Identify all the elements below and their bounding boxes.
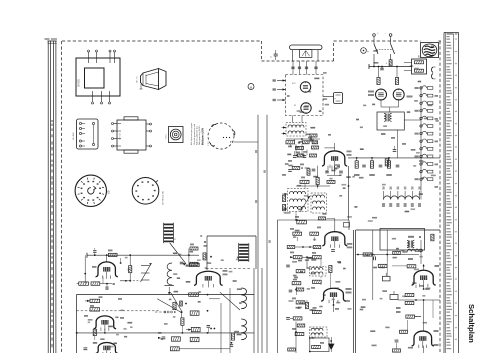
resistor R78 xyxy=(313,246,321,249)
capacitor C51 xyxy=(207,324,211,326)
capacitor C68 xyxy=(289,289,293,291)
micro labels FM box xyxy=(88,319,93,321)
wire a3 xyxy=(432,300,434,318)
wire tubes down xyxy=(380,100,382,107)
tuner top pins xyxy=(292,61,294,75)
resistor R63 xyxy=(296,146,304,149)
resistor R84 xyxy=(296,270,305,273)
small res mid xyxy=(180,301,183,306)
tube V1 ECC85 triode a xyxy=(300,82,310,92)
resistor R105 xyxy=(405,301,414,304)
wire x296 mid xyxy=(295,322,297,345)
wire c1 xyxy=(301,144,303,148)
resistor R41 xyxy=(129,266,132,273)
junction y312 xyxy=(181,311,183,313)
resistor R47 xyxy=(93,329,96,335)
chassis dashed border right vertical xyxy=(439,41,441,353)
tube V2 wires xyxy=(106,255,108,262)
output transformer small xyxy=(377,112,404,130)
ferrite antenna A1 xyxy=(290,45,323,50)
dial disc S2 xyxy=(132,178,159,205)
meander coil L6 xyxy=(167,263,172,285)
antenna terminal J1 xyxy=(373,34,376,37)
legend strip row text xyxy=(446,36,449,37)
node K xyxy=(210,256,212,258)
wire antenna leads to coils xyxy=(292,116,294,123)
resistor R88 xyxy=(296,301,305,304)
capacitor C61 xyxy=(303,155,307,157)
tuner left pins xyxy=(277,80,286,82)
antenna terminal J2 xyxy=(389,34,392,37)
chassis dashed border top far-right xyxy=(439,40,442,42)
resistor R33 xyxy=(203,253,206,260)
diode D1 xyxy=(329,344,334,349)
potentiometer P1 xyxy=(169,127,184,143)
resistor R75 xyxy=(310,154,317,157)
bus wire x230 xyxy=(229,288,231,353)
capacitor C74 xyxy=(396,164,400,166)
transformer T1 GH505 xyxy=(76,58,120,96)
resistor R53 xyxy=(190,311,199,315)
resistor R102 xyxy=(431,234,434,241)
switch S3a xyxy=(374,44,378,54)
capacitor C72 xyxy=(362,164,366,166)
resistor R40 xyxy=(108,253,117,256)
bus tick marks xyxy=(255,150,257,153)
resistor R91 xyxy=(312,310,321,313)
wire cc1 xyxy=(295,144,297,155)
resistor R46 xyxy=(90,308,100,311)
wire can B xyxy=(404,61,409,63)
resistor R73 xyxy=(370,161,373,168)
spine micro text xyxy=(51,120,53,122)
resistor R55 xyxy=(191,327,200,331)
capacitor C60 xyxy=(293,155,297,157)
resistor R66 xyxy=(283,195,286,201)
capacitor C80 xyxy=(286,264,290,266)
labels FM box xyxy=(118,298,122,300)
diagonal into L10 xyxy=(220,292,240,310)
labels bottom mid xyxy=(290,252,294,254)
svg-text:GH-VB 510-UB: GH-VB 510-UB xyxy=(163,191,165,205)
tube V7 xyxy=(393,89,404,100)
wire audio in xyxy=(356,254,364,256)
tube V8 pin stubs xyxy=(327,166,329,170)
diagonal pair b xyxy=(170,292,182,312)
resistor R86 xyxy=(292,282,301,285)
capacitor C90 xyxy=(380,67,383,69)
resistor R97 xyxy=(307,169,310,175)
wire detector bus xyxy=(348,157,440,159)
tube V6 xyxy=(376,89,387,100)
micro labels tuner xyxy=(323,72,327,74)
svg-text:Schaltplan: Schaltplan xyxy=(467,304,476,343)
FM wire y333 xyxy=(76,332,254,334)
wire c6 xyxy=(297,237,299,241)
capacitor C95 xyxy=(393,149,397,151)
resistor R61 xyxy=(303,141,310,144)
svg-text:gn: gn xyxy=(367,51,369,53)
wire V11 top xyxy=(423,264,425,270)
resistor R81 xyxy=(377,78,380,85)
chassis dashed border top-left xyxy=(62,40,262,42)
spine top tiny text xyxy=(45,38,50,40)
wire V5 grid xyxy=(188,277,196,279)
labels mid right xyxy=(381,133,386,135)
resistor R101 xyxy=(378,264,387,267)
resistor R96 xyxy=(292,167,300,170)
resistor R69 xyxy=(319,217,326,220)
resistor R65 xyxy=(300,180,309,183)
wave trap coil chain xyxy=(384,196,420,200)
resistor R32 xyxy=(190,262,198,265)
wire cc2 xyxy=(301,148,303,155)
bus wire x277 xyxy=(277,220,279,353)
chassis dashed border antenna dip right xyxy=(333,41,335,61)
mains transformer T3 xyxy=(380,229,425,251)
wire J2 branch xyxy=(390,54,392,60)
resistor R106 xyxy=(406,315,415,318)
resistor R76 xyxy=(297,154,304,157)
cap C64 xyxy=(339,170,343,172)
resistor R60 xyxy=(286,141,295,144)
svg-text:K: K xyxy=(201,234,203,238)
IF can Z1 xyxy=(162,223,164,243)
wire c8 xyxy=(296,286,298,295)
coil pair L22 dashed box xyxy=(311,193,327,213)
capacitor C81 xyxy=(286,317,290,319)
wire a4 xyxy=(396,343,398,349)
wire L40 xyxy=(415,251,421,253)
resistor R31 xyxy=(190,247,198,250)
ratio detector box bottom xyxy=(310,338,329,352)
Philips emblem xyxy=(421,43,439,58)
wire x348 detector xyxy=(348,166,350,220)
label 220V xyxy=(408,236,414,238)
coil pair L31 xyxy=(310,327,328,337)
IF coil L11 xyxy=(241,319,246,340)
FM box edges xyxy=(76,295,78,353)
wire audio h2 xyxy=(398,299,440,301)
micro labels bottom mid xyxy=(309,309,312,311)
wire a1 xyxy=(386,262,388,276)
wire x307 v xyxy=(306,257,308,268)
resistor R67 xyxy=(283,204,286,210)
capacitor C41 xyxy=(105,286,107,290)
junction dots bottom xyxy=(207,294,209,296)
resistor R110 xyxy=(312,146,319,149)
wire R70 R71 xyxy=(302,233,311,235)
ladder right marks xyxy=(435,95,439,97)
svg-text:GH 505: GH 505 xyxy=(79,78,81,87)
resistor R92 xyxy=(295,332,304,335)
IF box corner lines xyxy=(207,235,256,237)
switch coupling xyxy=(376,49,393,51)
coil pair L30 xyxy=(310,267,327,277)
micro labels top right xyxy=(372,104,375,106)
tube V9 EABC80 xyxy=(322,232,347,246)
svg-text:↓: ↓ xyxy=(385,32,386,35)
wire R43 right xyxy=(100,283,112,285)
IF coil L10 xyxy=(241,288,246,309)
label 470k group xyxy=(354,174,360,176)
resistor R95 xyxy=(385,159,388,166)
legend strip frame xyxy=(443,33,445,353)
pot P2 xyxy=(390,295,398,300)
wire bottom 349 xyxy=(179,348,230,350)
wire v11 pins xyxy=(415,285,417,288)
wire audio v3 xyxy=(407,320,409,332)
junction dots y328 xyxy=(210,328,212,330)
audio module box top edge xyxy=(356,229,440,231)
wire T3 down xyxy=(420,240,422,246)
wire y298 xyxy=(209,298,220,300)
tube V12 EL95 xyxy=(412,331,434,346)
left cluster y338 xyxy=(162,336,166,338)
wire c2 xyxy=(334,143,336,151)
resistor R51 xyxy=(189,293,199,296)
resistor R57 xyxy=(172,337,181,341)
labels V12 xyxy=(434,330,439,332)
dashed coupling wire xyxy=(126,280,140,282)
tuner unit dashed box xyxy=(286,75,324,116)
tube V8 EF89 xyxy=(322,151,347,166)
resistor R59 xyxy=(232,333,235,340)
wire x333 down xyxy=(333,301,335,312)
resistor R111 xyxy=(310,134,317,137)
chassis dashed border antenna dip left xyxy=(261,41,263,61)
svg-text:Meßwerte ±20%: Meßwerte ±20% xyxy=(202,128,205,145)
wire center y186 xyxy=(296,185,330,187)
pot P3 xyxy=(383,276,391,281)
coil L21 left pins xyxy=(282,193,288,195)
wire Y xyxy=(234,141,259,143)
antenna lead left xyxy=(292,50,294,61)
micro labels detector xyxy=(416,152,420,154)
resistor R43 xyxy=(91,282,100,285)
wire V2 left xyxy=(84,255,86,283)
wire V3 xyxy=(104,328,106,333)
svg-text:GH 711: GH 711 xyxy=(137,75,139,83)
resistor R64 xyxy=(316,178,319,185)
bus wire x221 xyxy=(220,303,222,353)
wire tube V8 down xyxy=(334,166,336,175)
svg-text:C1: C1 xyxy=(271,56,273,58)
resistor R58 xyxy=(170,347,179,351)
chassis dashed border antenna dip bottom xyxy=(262,60,334,62)
svg-text:GH 510: GH 510 xyxy=(120,132,122,140)
capacitor C42 xyxy=(84,347,88,349)
diagonal pair a xyxy=(157,299,181,313)
resistor R89 xyxy=(293,317,302,320)
wire c7 xyxy=(320,282,322,285)
res R64b xyxy=(327,180,335,183)
wire a2 xyxy=(407,320,409,330)
junction below K xyxy=(204,241,206,243)
band switch contact ladder xyxy=(420,86,422,186)
svg-text:85: 85 xyxy=(294,105,296,107)
wire ladder bottom xyxy=(420,186,422,200)
loudspeaker LS1 xyxy=(159,69,167,90)
labels V10 xyxy=(346,288,352,290)
wires bottom mid xyxy=(330,337,332,344)
antenna lead right xyxy=(317,50,319,61)
resistor R79 xyxy=(306,302,309,308)
detector bumps xyxy=(432,67,433,72)
tube V5 ECH81 xyxy=(194,271,223,285)
resistor R45 xyxy=(90,299,100,302)
legend header marks xyxy=(447,33,454,34)
resistor R94 xyxy=(288,348,296,351)
wire c5 xyxy=(327,217,335,219)
connector module GH642 xyxy=(77,119,99,149)
resistor R85 xyxy=(312,280,321,283)
capacitor C40 xyxy=(93,250,96,252)
wire y175 h xyxy=(327,175,341,177)
dashed line y268 xyxy=(206,268,252,270)
capacitor C100 xyxy=(373,257,375,261)
cap right of V2 xyxy=(120,258,122,262)
labels V11 xyxy=(435,265,440,267)
wire y281 stub xyxy=(120,280,130,282)
resistor R80 xyxy=(293,256,302,259)
bus wire x262 xyxy=(261,268,263,353)
cap C63 xyxy=(325,170,329,172)
electrolytic can C100 (dashed outline) xyxy=(208,123,234,149)
circled label B2 xyxy=(248,84,254,90)
cap C52 xyxy=(230,344,233,346)
svg-text:Netzspannung 220V~: Netzspannung 220V~ xyxy=(198,124,201,145)
wire R42 left xyxy=(77,283,79,285)
labels center col xyxy=(288,146,292,148)
dial disc S1 xyxy=(75,175,106,206)
wire y175 xyxy=(327,175,341,177)
link R31 R32 xyxy=(188,249,190,264)
wire x321 v xyxy=(320,259,322,267)
wire cc3 xyxy=(334,166,336,171)
micro labels IF bottom xyxy=(205,267,208,269)
resistor R68 xyxy=(297,221,307,224)
micro labels center column xyxy=(328,134,331,136)
resistor R56 xyxy=(190,337,199,341)
wire y139 xyxy=(286,138,320,140)
wire links 139-142 xyxy=(294,139,296,141)
bus wire x258 xyxy=(257,115,259,353)
resistor R100 xyxy=(363,253,372,256)
resistor R77 xyxy=(287,246,295,249)
ratio detector transformer B xyxy=(412,59,427,74)
IF filter F1 xyxy=(334,93,343,104)
micro labels audio xyxy=(393,257,397,259)
coil pair L20 dashed box xyxy=(286,123,306,137)
svg-text:GH 642: GH 642 xyxy=(73,132,75,140)
resistor R103 xyxy=(407,265,416,268)
tube V1 ECC85 triode b xyxy=(301,103,311,113)
diagonal wire Z1 to K cluster xyxy=(170,243,186,264)
tuner output wire xyxy=(323,96,334,98)
capacitor C67 xyxy=(312,168,316,170)
svg-text:B: B xyxy=(250,85,252,89)
wire c4 xyxy=(304,184,306,189)
wire c3 xyxy=(295,212,297,221)
tube V2 EC92 xyxy=(96,262,118,277)
resistor R82 xyxy=(395,78,398,85)
wire a5 xyxy=(359,230,361,240)
small box right of V9 xyxy=(344,223,350,228)
trimmer circles row xyxy=(164,311,166,313)
tube V11 EABC80 xyxy=(412,270,436,285)
tube V4 xyxy=(96,342,118,353)
wire y255 end bar xyxy=(86,253,88,258)
wire audio v2 xyxy=(423,300,425,331)
lamp symbol xyxy=(361,48,367,54)
capacitor C66 xyxy=(288,169,292,171)
chassis dashed border left vertical xyxy=(61,41,63,353)
vert resistor R87 xyxy=(329,266,332,273)
resistor R42 xyxy=(79,282,89,285)
resistor R50 xyxy=(189,263,199,266)
tuning arrow L21 xyxy=(300,196,310,212)
wire audio h1 xyxy=(363,254,419,256)
capacitor C101 xyxy=(395,339,399,341)
wire terminal to bus xyxy=(373,54,375,67)
resistor R108 xyxy=(393,349,401,352)
capacitor C65 xyxy=(331,249,335,251)
resistor R74 xyxy=(387,161,390,168)
resistor R72 xyxy=(355,161,358,168)
resistor R62 xyxy=(312,141,318,144)
wire box corner xyxy=(348,220,350,230)
wire y255 long xyxy=(87,254,199,256)
svg-text:Alle Spannungen gegen: Alle Spannungen gegen xyxy=(190,122,193,145)
svg-text:Rohrenvoltmeter bei: Rohrenvoltmeter bei xyxy=(196,126,199,145)
tube V10 xyxy=(321,288,346,301)
driver transformer T2 GH510 xyxy=(117,120,146,150)
coil L20 left pins xyxy=(282,127,287,129)
bus top connect xyxy=(278,219,350,221)
resistor R99 xyxy=(297,324,305,327)
switch S3b xyxy=(391,44,395,54)
resistor R83 xyxy=(312,256,321,259)
wire V8 in xyxy=(308,147,325,149)
resistor R93 xyxy=(312,345,321,348)
chassis dashed border top-right xyxy=(334,40,421,42)
svg-text:ECC: ECC xyxy=(292,83,297,85)
svg-text:GB: GB xyxy=(108,190,111,194)
resistor R54 xyxy=(181,318,184,325)
FM dashed internal xyxy=(77,310,161,312)
capacitor C73 xyxy=(379,164,383,166)
resistor R70 xyxy=(293,232,302,235)
audio module box left edge xyxy=(353,230,355,353)
resistor R98 xyxy=(296,288,304,291)
tapped coil L5 xyxy=(141,263,152,282)
wire x397 down xyxy=(397,130,399,158)
resistor R107 xyxy=(400,330,408,333)
resistor R71 xyxy=(310,232,319,235)
capacitor C50 xyxy=(180,261,183,263)
trimmer capacitor C1 xyxy=(274,53,278,55)
coil pair L21 dashed box xyxy=(288,189,309,212)
wire cc4 xyxy=(289,144,291,147)
spine margin lines xyxy=(47,41,49,353)
resistor R52 xyxy=(173,302,176,309)
resistor R90 xyxy=(389,60,392,66)
wire y247 xyxy=(295,246,313,248)
IF can Z2 xyxy=(238,243,240,262)
bus wire x254 xyxy=(253,268,255,353)
resistor R109 xyxy=(393,251,401,254)
